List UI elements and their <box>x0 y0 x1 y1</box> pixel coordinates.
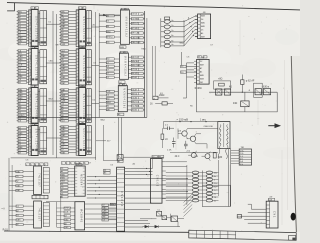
J2 top label <box>152 155 164 158</box>
connector labels U8 <box>61 125 69 154</box>
IC U2 <box>31 49 38 86</box>
svg-text:2 B-: 2 B- <box>240 153 244 155</box>
svg-text:SN74LS373N: SN74LS373N <box>35 55 38 79</box>
loop box B <box>254 83 263 97</box>
aux resistor pack U5 <box>86 11 92 46</box>
vertical bus wire <box>52 11 54 155</box>
driver oval column <box>164 20 174 48</box>
vertical wire <box>56 202 58 227</box>
svg-text:42.С: 42.С <box>175 156 180 158</box>
gate B1 <box>255 89 262 95</box>
IC U18 top label <box>268 196 274 202</box>
lower wire with diodes <box>143 225 181 228</box>
IC U14 interior rows <box>75 168 86 193</box>
coil under transformer <box>218 149 227 159</box>
wire stubs U8 <box>59 127 76 153</box>
svg-text:R-01: R-01 <box>3 229 9 232</box>
junction dot <box>242 92 243 93</box>
IC U9 bottom label <box>120 46 126 49</box>
svg-text:8: 8 <box>35 47 36 49</box>
vertical bus wire left <box>8 158 10 231</box>
svg-text:B3: B3 <box>159 157 161 159</box>
svg-text:CLK: CLK <box>107 91 112 93</box>
resistor 180ohm <box>153 95 169 100</box>
resistor R vertical <box>241 75 244 93</box>
resistor 160ohm <box>150 102 173 106</box>
svg-text:6: 6 <box>29 153 30 155</box>
svg-text:6 H: 6 H <box>240 164 244 166</box>
connector J2 <box>150 159 165 204</box>
connector labels U15 <box>64 207 71 229</box>
wire stubs U6 <box>59 51 76 84</box>
wire <box>96 140 106 142</box>
svg-text:9: 9 <box>76 83 77 85</box>
svg-text:A0 A6: A0 A6 <box>132 109 138 112</box>
wire stubs U4 <box>17 128 29 153</box>
left pin labels U11 <box>106 90 114 111</box>
svg-text:J: J <box>26 164 27 166</box>
svg-text:CAS: CAS <box>61 43 66 46</box>
svg-text:SN74LS244N: SN74LS244N <box>35 129 38 153</box>
pin strip U3 <box>29 88 32 123</box>
svg-text:≈ 150 мВ: ≈ 150 мВ <box>177 117 189 121</box>
bus bar <box>32 195 48 199</box>
svg-text:WR: WR <box>61 11 65 13</box>
svg-text:WR: WR <box>61 132 65 134</box>
svg-text:D7 D6: D7 D6 <box>132 69 139 71</box>
right sheet edge <box>291 56 296 232</box>
right wires U10 <box>128 57 144 77</box>
IC U14 top label <box>76 163 82 166</box>
svg-text:J: J <box>62 163 63 165</box>
svg-text:8: 8 <box>83 8 84 10</box>
vertical wire <box>60 196 62 232</box>
svg-text:2.2K: 2.2K <box>167 150 172 152</box>
right pin labels U10 <box>131 56 143 79</box>
svg-text:MREQ: MREQ <box>18 115 24 117</box>
IC U7 <box>79 88 86 124</box>
svg-text:=A: =A <box>1 207 5 211</box>
svg-text:MKMK4116J: MKMK4116J <box>125 17 128 38</box>
IC U16 <box>195 14 211 39</box>
vertical wire matrix <box>186 165 188 205</box>
junction dots top wire <box>179 121 206 122</box>
vertical bus wire <box>56 14 58 158</box>
wire top oscillator <box>163 121 230 123</box>
svg-text:D5: D5 <box>201 30 203 32</box>
IC U1 top labels <box>31 7 39 10</box>
connector J1 <box>117 167 125 231</box>
junction dots <box>146 168 187 192</box>
pin strip U5 <box>76 10 79 47</box>
transistor Q2 <box>187 134 197 144</box>
connector labels U2 <box>18 50 27 84</box>
resistor in loop A <box>219 83 225 86</box>
svg-text:RAS: RAS <box>16 219 21 222</box>
svg-text:J2: J2 <box>152 157 154 159</box>
svg-text:CN103: CN103 <box>155 175 158 187</box>
svg-text:WR: WR <box>18 11 22 13</box>
pin strip U1 <box>29 10 32 46</box>
svg-text:11: 11 <box>76 77 78 79</box>
outside page shading bottom <box>0 241 300 243</box>
vertical wire <box>102 125 104 161</box>
svg-text:74LS157: 74LS157 <box>37 207 40 221</box>
svg-text:43Ω: 43Ω <box>233 103 238 105</box>
svg-text:≈630 м: ≈630 м <box>262 85 270 88</box>
svg-text:MA5: MA5 <box>201 22 205 25</box>
resistor R3 <box>213 153 223 159</box>
gate chain wires <box>140 214 184 227</box>
gate D2 <box>162 216 167 220</box>
svg-text:ОБШ 630: ОБШ 630 <box>204 126 214 128</box>
RAM IC U11 <box>118 86 127 112</box>
oscillator wires <box>163 122 217 153</box>
IC U9 top labels <box>121 8 128 11</box>
right pin labels U11 <box>131 88 143 111</box>
svg-text:∆Ф: ∆Ф <box>270 196 273 199</box>
J1 wire junction dots <box>95 176 100 198</box>
svg-text:D4 A4: D4 A4 <box>132 97 138 100</box>
left wires U11 <box>99 92 118 110</box>
wire gate chain <box>209 91 277 93</box>
scanner streaks <box>94 5 288 225</box>
RAM IC U10 <box>119 53 128 79</box>
driver mesh dots <box>188 18 194 37</box>
svg-text:D2: D2 <box>200 61 202 63</box>
small label boxes <box>110 203 115 206</box>
svg-text:180Ω: 180Ω <box>159 95 165 97</box>
wire stubs U1 <box>17 12 29 44</box>
jumper row <box>26 163 48 166</box>
IC U7 top labels <box>78 85 86 88</box>
IC U13 <box>34 201 42 228</box>
pin strip U4 <box>29 126 32 155</box>
left pin labels U9 <box>106 14 114 44</box>
pin strip U6 <box>76 49 79 86</box>
connector labels U5 <box>61 11 69 46</box>
IC U4 <box>31 126 38 156</box>
svg-text:MA3: MA3 <box>201 15 205 18</box>
capacitor C3 <box>184 141 188 149</box>
svg-text:СТ: СТ <box>178 130 182 133</box>
svg-text:Φ 48Ω: Φ 48Ω <box>195 87 202 90</box>
driver output wires <box>170 16 197 46</box>
svg-text:8: 8 <box>35 124 36 126</box>
capacitor C2 <box>172 138 176 148</box>
svg-text:MA5: MA5 <box>200 74 204 77</box>
U18 staircase wires <box>240 204 266 223</box>
vertical bus wire <box>144 11 146 117</box>
svg-text:A0: A0 <box>201 32 203 35</box>
svg-text:SN74LS373N: SN74LS373N <box>35 16 38 40</box>
left wires U10 <box>99 59 119 77</box>
J1 lower left labels <box>102 204 109 221</box>
svg-text:16: 16 <box>125 9 127 11</box>
IC U11 top labels <box>119 84 126 87</box>
svg-text:RAS: RAS <box>18 37 23 40</box>
vertical bus wire <box>95 12 97 160</box>
connector labels U3 <box>18 88 27 122</box>
svg-text:A7: A7 <box>200 67 202 70</box>
svg-text:CAS MA3: CAS MA3 <box>132 36 142 39</box>
aux resistor pack U8 <box>86 126 92 155</box>
driver top box <box>165 17 170 20</box>
svg-text:MREQ: MREQ <box>64 208 70 210</box>
svg-text:MA7: MA7 <box>200 64 204 67</box>
IC U11 bottom label <box>118 113 124 116</box>
IC U14 <box>75 166 86 196</box>
svg-text:3: 3 <box>76 62 77 64</box>
svg-text:2: 2 <box>76 44 77 46</box>
aux pack U12 <box>43 168 49 194</box>
wire stubs U14 <box>68 169 75 197</box>
svg-text:MA5 RAS: MA5 RAS <box>132 64 141 67</box>
vertical bus wire <box>98 13 100 117</box>
IC U8 <box>79 125 86 156</box>
svg-text:CLK: CLK <box>64 212 69 214</box>
svg-text:WE D4: WE D4 <box>132 57 139 59</box>
small comp W1 <box>237 215 241 218</box>
svg-text:RAS: RAS <box>142 48 147 51</box>
matrix diagonal fan <box>184 194 193 217</box>
connector labels U14 <box>60 168 68 199</box>
gate G1 <box>117 155 123 161</box>
svg-text:16: 16 <box>124 52 126 54</box>
title block corner box <box>289 235 296 240</box>
svg-text:SN74LS244N: SN74LS244N <box>35 94 38 118</box>
IC U8 top labels <box>78 122 86 125</box>
svg-text:WE CAS: WE CAS <box>132 32 141 35</box>
pin strip U2 <box>29 49 32 85</box>
U17 left label wires <box>181 52 196 72</box>
gate A2 <box>224 89 230 95</box>
RAM IC U9 <box>120 10 129 45</box>
svg-text:D3 D6: D3 D6 <box>132 14 139 16</box>
resistor R2 <box>161 128 164 148</box>
svg-text:16: 16 <box>123 85 125 87</box>
matrix box outline <box>202 185 230 206</box>
svg-text:D6 A7: D6 A7 <box>132 88 138 91</box>
svg-text:RAS: RAS <box>120 46 125 49</box>
svg-text:RAS RAS: RAS RAS <box>132 41 141 44</box>
horizontal wire <box>46 201 75 203</box>
wire to gate A3 <box>244 92 246 112</box>
left wires U9 <box>99 16 120 43</box>
svg-text:+8Ω: +8Ω <box>218 79 223 81</box>
wire arrow into U9 <box>99 14 120 16</box>
IC U17 <box>194 59 209 84</box>
wire stubs U5 <box>59 12 76 45</box>
svg-text:MC6845: MC6845 <box>80 209 84 223</box>
svg-text:MC6847: MC6847 <box>80 174 84 188</box>
svg-text:SN74LS244N: SN74LS244N <box>82 94 85 118</box>
aux resistor pack U6 <box>86 50 92 85</box>
svg-text:CAS: CAS <box>61 100 66 103</box>
stray net labels <box>26 14 214 167</box>
svg-text:A2 A6: A2 A6 <box>132 76 138 79</box>
svg-text:MA7: MA7 <box>201 36 205 39</box>
svg-text:MA3: MA3 <box>200 78 204 81</box>
J1 right wires upper <box>125 168 188 198</box>
wire stubs U15 <box>57 208 75 228</box>
svg-text:2: 2 <box>29 82 30 84</box>
svg-text:RAS: RAS <box>61 94 66 97</box>
wire stubs U7 <box>59 90 76 121</box>
svg-text:φ 62 AF: φ 62 AF <box>246 80 255 83</box>
horizontal bus wire <box>18 116 147 118</box>
IC U5 <box>79 10 86 48</box>
right wires U11 <box>127 90 144 110</box>
svg-text:-630: -630 <box>218 157 223 159</box>
matrix vertical bus <box>201 171 203 186</box>
svg-text:A7 WE: A7 WE <box>132 27 139 30</box>
pin strip U7 <box>76 88 79 123</box>
gate B2 <box>263 89 270 95</box>
vertical bus wire left <box>11 165 13 228</box>
svg-text:MKMK4116J: MKMK4116J <box>124 56 127 77</box>
gate D3 <box>171 216 177 222</box>
diode column A <box>192 171 198 202</box>
capacitor C1 <box>163 127 174 131</box>
svg-text:4: 4 <box>121 9 122 11</box>
svg-text:8: 8 <box>83 86 84 88</box>
svg-text:4Ω: 4Ω <box>229 87 232 89</box>
vertical wires mid <box>153 46 156 96</box>
terminal strip TS1 <box>231 149 252 166</box>
svg-text:SN74LS373N: SN74LS373N <box>82 16 85 40</box>
IC U6 top labels <box>78 46 86 49</box>
IC U1 <box>31 10 38 47</box>
connector labels U13 <box>16 205 23 226</box>
loop box A <box>214 81 231 89</box>
svg-text:CLK: CLK <box>18 65 23 67</box>
U17 left labels <box>181 65 187 74</box>
connector labels U12 <box>16 170 23 192</box>
J1 right wires lower <box>125 203 152 227</box>
right wires U9 <box>129 14 144 43</box>
wire stubs U12 <box>9 172 34 191</box>
IC U18 <box>266 201 278 228</box>
IC U2 top labels <box>31 46 39 49</box>
aux resistor pack U1 <box>38 11 47 46</box>
svg-text:CN1: CN1 <box>273 211 276 218</box>
svg-text:J: J <box>85 163 86 165</box>
top-left border step <box>7 3 14 11</box>
connector labels U7 <box>61 88 69 122</box>
svg-text:WR D7: WR D7 <box>132 23 139 25</box>
svg-text:4: 4 <box>120 52 121 54</box>
direction arrow <box>268 124 279 127</box>
svg-text:74LS157: 74LS157 <box>37 173 40 187</box>
svg-text:48: 48 <box>198 57 200 59</box>
svg-text:CAS: CAS <box>18 55 23 58</box>
svg-text:3: 3 <box>76 153 77 155</box>
IC U3 <box>31 88 38 124</box>
wire stubs U3 <box>17 90 29 121</box>
aux resistor pack U7 <box>86 89 92 123</box>
svg-text:≠С: ≠С <box>165 138 168 141</box>
IC U6 <box>79 49 86 87</box>
wire stubs U13 <box>9 206 34 224</box>
svg-text:CAS: CAS <box>49 60 54 63</box>
IC U4 top labels <box>31 123 39 126</box>
svg-text:U18: U18 <box>269 199 272 201</box>
outside page shading right <box>291 56 300 232</box>
svg-text:MA5: MA5 <box>201 25 205 28</box>
svg-text:CAS: CAS <box>102 210 107 213</box>
gate D1 <box>157 211 162 216</box>
IC U3 top labels <box>31 85 39 88</box>
svg-text:CLK: CLK <box>61 71 66 73</box>
wire loop right <box>197 84 278 112</box>
title block mid line <box>189 234 236 235</box>
J1 left wires <box>87 177 117 198</box>
connector labels U6 <box>61 50 69 85</box>
svg-text:U14: U14 <box>76 164 79 166</box>
punch hole <box>291 213 296 221</box>
title block dividers <box>197 230 236 239</box>
top border line <box>7 3 300 10</box>
horizontal wire <box>103 160 117 162</box>
IC U10 top labels <box>120 51 127 54</box>
gate A3 below <box>241 101 249 107</box>
svg-text:A5: A5 <box>200 71 202 74</box>
transistor Q3 <box>202 152 211 161</box>
wires above matrix <box>153 159 187 169</box>
svg-text:3 G: 3 G <box>240 156 244 158</box>
matrix wires <box>166 173 219 201</box>
connector labels U1 <box>18 11 27 46</box>
svg-text:CN102A: CN102A <box>120 191 123 207</box>
IC U5 top labels <box>78 7 86 10</box>
connector J1 top box <box>118 159 124 163</box>
aux resistor pack U2 <box>38 50 47 84</box>
svg-text:8: 8 <box>83 123 84 125</box>
svg-text:A3 D4: A3 D4 <box>132 92 138 95</box>
IC U12 <box>34 166 42 195</box>
wire stubs U2 <box>17 51 29 83</box>
diode column B <box>206 171 218 202</box>
IC2 left wire bundle <box>183 63 194 98</box>
vertical wire bundle right <box>228 149 230 207</box>
vertical wire matrix <box>218 160 220 196</box>
svg-text:4: 4 <box>119 85 120 87</box>
svg-text:CLK: CLK <box>61 121 66 123</box>
svg-text:MREQ: MREQ <box>107 37 113 39</box>
svg-text:SN74LS244N: SN74LS244N <box>82 128 85 152</box>
svg-text:D4: D4 <box>201 19 203 21</box>
svg-text:A6 WR: A6 WR <box>132 72 139 75</box>
svg-text:AL: AL <box>118 160 120 163</box>
svg-text:SN74LS373N: SN74LS373N <box>82 55 85 79</box>
J1 upper left labels <box>104 169 111 174</box>
svg-text:CLK: CLK <box>61 50 66 52</box>
connector labels U4 <box>18 126 27 154</box>
aux pack U13 <box>43 203 49 227</box>
IC U10 bottom label <box>119 81 125 84</box>
wire from G1 <box>123 157 163 158</box>
svg-text:8: 8 <box>76 121 77 123</box>
left pin labels U10 <box>106 58 114 79</box>
bus drops into J1 <box>119 117 122 158</box>
bottom border line <box>4 231 189 232</box>
svg-text:MKMK4116J: MKMK4116J <box>123 88 126 109</box>
IC U15 <box>75 202 85 230</box>
aux resistor pack U4 <box>38 127 47 155</box>
vertical bus wire <box>146 18 148 117</box>
svg-text:14: 14 <box>29 121 31 123</box>
